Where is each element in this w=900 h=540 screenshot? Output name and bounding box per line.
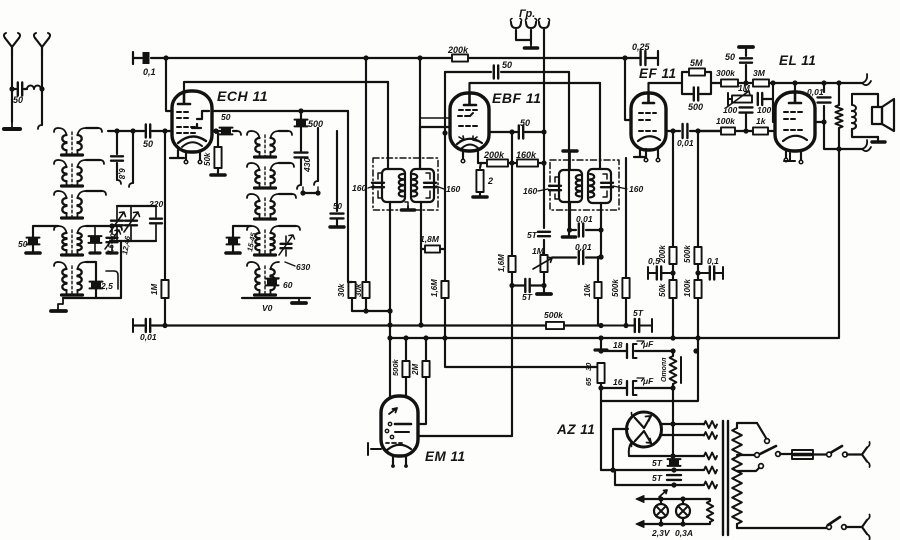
wire ECH11 plate line xyxy=(212,110,348,112)
coil stack1 unit 4 xyxy=(62,233,66,250)
svg-text:5T: 5T xyxy=(522,292,533,302)
svg-text:0,5: 0,5 xyxy=(648,256,660,266)
rail under 30k xyxy=(352,310,390,312)
trimmer 12,46 xyxy=(130,206,132,241)
svg-text:100: 100 xyxy=(723,105,737,115)
resistor 5M xyxy=(682,72,711,83)
terminal hook bottom xyxy=(862,140,871,151)
svg-text:30k: 30k xyxy=(354,283,363,297)
capacitor 0,01 bus1 left xyxy=(132,319,134,332)
wire top line to terminal xyxy=(795,82,862,84)
IF1 ground xyxy=(405,202,408,209)
svg-text:500: 500 xyxy=(688,102,703,112)
resistor 200k xyxy=(487,159,508,166)
svg-text:50: 50 xyxy=(221,112,231,122)
capacitor 50 to top ground xyxy=(745,65,747,83)
wire colA x672 xyxy=(672,131,674,247)
trimmer 4,5-30 xyxy=(116,206,118,241)
svg-text:1,6M: 1,6M xyxy=(430,279,439,297)
svg-text:300k: 300k xyxy=(716,68,736,78)
coil stack1 unit 5 xyxy=(62,269,66,290)
gramophone sockets xyxy=(511,22,521,28)
resistor 3M xyxy=(753,79,769,86)
terminal hook top xyxy=(862,74,871,85)
lamp winding vertical xyxy=(706,498,708,500)
choke field coil xyxy=(670,356,677,384)
svg-text:50k: 50k xyxy=(658,283,667,297)
EBF11 diode plates xyxy=(459,136,464,141)
wire bus1 xyxy=(165,324,601,326)
wire 0,1 node down to ECH11 grid1 xyxy=(166,58,172,111)
svg-text:0,1: 0,1 xyxy=(143,67,156,77)
wire EF11 top cap left/up xyxy=(649,83,683,93)
output transformer secondary xyxy=(852,94,856,129)
EBF11 top cap xyxy=(464,93,476,105)
wire x673 down to AZ11 xyxy=(672,388,674,456)
svg-text:1M: 1M xyxy=(150,284,159,295)
capacitor 0,5 xyxy=(648,267,673,279)
arrow lamp wire a xyxy=(636,496,644,503)
wire heater row y367 xyxy=(445,338,597,367)
svg-text:50: 50 xyxy=(502,60,512,70)
ECH11 pins xyxy=(170,150,184,158)
capacitor 50 antenna series xyxy=(9,86,14,91)
resistor 30k b xyxy=(362,282,369,298)
svg-text:3M: 3M xyxy=(753,68,766,78)
coil stack1 unit 3 xyxy=(62,198,66,213)
EM11 cathode arc xyxy=(387,445,411,450)
stack2 bottom rail xyxy=(242,297,310,299)
antenna A2 xyxy=(35,38,49,55)
svg-text:500k: 500k xyxy=(544,310,564,320)
EL11 cathode arc xyxy=(783,136,807,141)
switch lever primary xyxy=(760,446,776,454)
wire IF1 right bottom xyxy=(420,202,422,325)
EBF11 grids xyxy=(458,110,477,116)
coil L-ant 2 loops xyxy=(27,86,41,90)
ground under A1 xyxy=(11,122,13,128)
tube EF11 xyxy=(631,93,666,150)
svg-text:220: 220 xyxy=(148,199,163,209)
svg-text:2,5: 2,5 xyxy=(100,281,113,291)
capacitor 0,01 row2 xyxy=(579,251,583,264)
resistor 2M EM xyxy=(425,338,427,361)
stack1 bottom rail xyxy=(63,297,121,299)
IF1 label 160 right xyxy=(436,186,444,189)
tube EL11 xyxy=(775,92,815,151)
resistor 10k xyxy=(594,282,601,298)
svg-text:0,3A: 0,3A xyxy=(675,528,693,538)
primary tap 2 xyxy=(737,468,759,471)
svg-text:65: 65 xyxy=(584,377,593,386)
resistor 1k xyxy=(753,127,768,134)
svg-text:50: 50 xyxy=(520,118,530,128)
resistor 1,8M xyxy=(421,248,445,250)
ECH11 internal grids xyxy=(177,112,188,118)
IF2 dashed box xyxy=(550,160,619,210)
node bus1 start xyxy=(163,55,168,60)
wire x598 column xyxy=(597,257,599,265)
IF2 left winding xyxy=(559,170,582,202)
ground pot xyxy=(543,286,545,294)
capacitor 50 series grid xyxy=(146,125,150,138)
trimmer on unit4 xyxy=(111,226,113,252)
svg-text:100k: 100k xyxy=(716,116,736,126)
capacitor fixed on unit4 xyxy=(94,226,96,252)
IF2 left top ground xyxy=(569,152,571,170)
resistor 200k top bus xyxy=(452,54,468,61)
resistor 300k xyxy=(721,79,738,86)
wire pot wiper row xyxy=(552,256,601,258)
ECH11 grid exit + cap 50 xyxy=(213,128,218,133)
primary tap 1 xyxy=(737,454,754,456)
EL11 pins xyxy=(785,149,787,158)
svg-text:0,1: 0,1 xyxy=(707,256,719,266)
wire x512 column xyxy=(511,132,513,256)
capacitor 5T heater b xyxy=(667,475,681,480)
coil stack2 unit 3 xyxy=(255,201,259,214)
wire bottom line to terminal xyxy=(824,122,862,149)
IF2 left cap 160 xyxy=(549,186,561,190)
ground stack2 xyxy=(298,298,300,302)
wire antenna A1 down xyxy=(11,55,13,122)
resistor 100k colB xyxy=(694,280,701,298)
capacitor 6,8 column xyxy=(116,131,118,180)
IF1 left cap 160 xyxy=(372,183,384,187)
EF11 grids xyxy=(639,113,656,120)
wire bus drop x366 xyxy=(365,58,367,282)
resistor 100k xyxy=(721,127,735,134)
svg-text:50: 50 xyxy=(143,139,153,149)
svg-text:6,8: 6,8 xyxy=(117,168,126,180)
svg-text:EL 11: EL 11 xyxy=(779,53,816,68)
coil stack1 unit 1 xyxy=(62,135,66,150)
ECH11 top cap electrode xyxy=(178,91,190,104)
wire bus to EF11 grid xyxy=(625,58,631,120)
coil stack2 unit 5 xyxy=(255,269,259,290)
coil stack1 unit 2 xyxy=(62,167,66,181)
svg-text:1M: 1M xyxy=(738,83,751,93)
IF1 right cap 160 xyxy=(424,183,436,187)
wire grid line xyxy=(108,130,174,132)
EBF11 cathode arc xyxy=(457,139,482,144)
svg-text:200k: 200k xyxy=(447,45,469,55)
svg-text:30: 30 xyxy=(584,362,593,371)
ground speaker xyxy=(877,137,879,141)
IF1 label 160 left xyxy=(368,186,374,188)
svg-text:Отопл: Отопл xyxy=(661,357,668,382)
capacitor 220 xyxy=(155,206,157,241)
capacitor 500 xyxy=(296,120,306,126)
wire diode line xyxy=(489,131,544,133)
capacitor 0,01 EL xyxy=(823,83,825,122)
wire IF1 left bottom down xyxy=(389,202,391,396)
ECH11 triode electrode xyxy=(192,111,209,128)
svg-text:2: 2 xyxy=(487,176,493,186)
resistor 500k colB xyxy=(694,247,701,264)
wire x512 down to EM11 xyxy=(511,286,513,437)
wire B+ down right side xyxy=(838,149,840,338)
coil stack2 unit 4 xyxy=(255,233,259,250)
svg-text:160: 160 xyxy=(523,186,537,196)
capacitor 430 xyxy=(295,153,308,158)
fuse xyxy=(780,453,792,455)
wire osc grid column x165 xyxy=(164,131,166,280)
capacitor 5T xyxy=(512,284,544,286)
wire column x133 xyxy=(132,131,134,183)
capacitor 50 screen series xyxy=(494,66,498,79)
capacitor 0,01 EF plate xyxy=(666,130,721,132)
resistor 50k colA xyxy=(669,280,676,298)
potentiometer 1M tone xyxy=(728,93,732,105)
resistor 500k b xyxy=(622,278,629,298)
capacitor 0,1 colB xyxy=(698,267,723,279)
svg-text:50k: 50k xyxy=(203,152,212,166)
svg-text:5T: 5T xyxy=(652,458,663,468)
capacitor 100 electrolytic xyxy=(745,82,747,84)
svg-text:AZ 11: AZ 11 xyxy=(556,422,595,437)
IF2 right cap 160 xyxy=(601,183,613,187)
svg-text:EM 11: EM 11 xyxy=(425,449,466,464)
coil stack2 unit 2 xyxy=(255,170,259,183)
wire unit5 area xyxy=(86,262,96,281)
wire EL grid row xyxy=(696,130,775,132)
svg-text:0,01: 0,01 xyxy=(677,138,694,148)
wire EBF11 top cap to plate line xyxy=(470,83,601,93)
svg-text:10k: 10k xyxy=(583,283,592,297)
wire colB x698 xyxy=(697,131,699,247)
svg-text:100k: 100k xyxy=(683,279,692,297)
capacitor 500 parallel xyxy=(682,83,711,94)
svg-text:5T: 5T xyxy=(527,230,538,240)
wire cathode row xyxy=(478,162,544,164)
label 630 xyxy=(285,262,295,266)
wire EM11 target line xyxy=(418,435,512,437)
wire screen line y72 xyxy=(445,71,569,73)
AZ11 cathode down xyxy=(629,443,631,456)
resistor 1,6M a xyxy=(441,281,448,298)
resistor 500k EM xyxy=(405,338,407,361)
switch mains b xyxy=(827,525,832,530)
IF1 left winding xyxy=(382,169,405,202)
resistor 30k a xyxy=(348,282,355,298)
resistor 2 cathode xyxy=(478,163,481,168)
capacitor 0,1 xyxy=(132,52,134,64)
output transformer primary xyxy=(835,105,842,128)
EF11 cathode arc xyxy=(638,136,660,141)
svg-text:630: 630 xyxy=(296,262,310,272)
AZ11 plate wires xyxy=(660,423,704,425)
svg-text:30k: 30k xyxy=(337,283,346,297)
capacitor 2,5 xyxy=(91,282,101,288)
svg-text:100: 100 xyxy=(757,105,771,115)
EM11 pins xyxy=(392,456,394,464)
tube AZ11 xyxy=(627,412,662,447)
capacitor 16uF xyxy=(601,381,627,395)
svg-text:EBF 11: EBF 11 xyxy=(492,90,541,106)
svg-text:50: 50 xyxy=(18,239,28,249)
potentiometer 1M volume xyxy=(540,255,547,272)
svg-text:1k: 1k xyxy=(756,116,767,126)
switch lever lamps xyxy=(659,490,667,497)
capacitor 50 stack1 unit4 left xyxy=(33,226,58,237)
lamp wires xyxy=(641,498,706,500)
tube EM11 xyxy=(381,396,418,456)
svg-text:5T: 5T xyxy=(652,473,663,483)
wire filter loop xyxy=(601,338,698,401)
speaker xyxy=(872,107,882,124)
resistor 30/65 xyxy=(597,363,604,383)
svg-text:200k: 200k xyxy=(483,150,505,160)
lamp 1 xyxy=(654,504,668,518)
svg-text:160: 160 xyxy=(629,184,643,194)
svg-text:160: 160 xyxy=(446,184,460,194)
resistor 200k colA xyxy=(669,247,676,264)
resistor 500k bus1 xyxy=(546,322,564,329)
wire gramophone column x544 xyxy=(543,30,545,255)
svg-text:50: 50 xyxy=(13,95,23,105)
socket wiring xyxy=(516,30,531,44)
svg-text:ECH 11: ECH 11 xyxy=(217,88,268,104)
svg-text:500k: 500k xyxy=(683,245,692,263)
IF2 label 160 left xyxy=(538,189,548,191)
IF1 right winding xyxy=(411,169,434,202)
ground top of 65 resistor xyxy=(595,348,607,351)
arrow lamp wire b xyxy=(636,521,644,528)
svg-text:V0: V0 xyxy=(262,303,273,313)
wire ECH top line down to IF1 xyxy=(387,82,389,169)
wire pot bottom xyxy=(543,272,545,286)
plug pin b xyxy=(856,520,867,534)
trimmer cluster rails xyxy=(110,206,156,298)
AZ11 left wire xyxy=(613,429,628,470)
svg-text:1,6M: 1,6M xyxy=(497,254,506,272)
wire EL11 plate to x824 xyxy=(815,121,824,123)
heater wires xyxy=(601,469,704,471)
svg-text:500k: 500k xyxy=(611,279,620,297)
transformer primary xyxy=(732,428,742,524)
wire EBF plate down to IF2 xyxy=(599,83,601,169)
IF2 bottoms xyxy=(569,202,571,230)
wire x445 column xyxy=(444,72,446,281)
capacitor 60 xyxy=(275,277,279,279)
svg-text:1,8M: 1,8M xyxy=(420,234,440,244)
svg-text:50: 50 xyxy=(333,202,342,211)
svg-text:18: 18 xyxy=(613,340,623,350)
svg-text:2M: 2M xyxy=(411,364,420,376)
svg-text:0,01: 0,01 xyxy=(807,87,824,97)
switch mains a xyxy=(827,452,832,457)
svg-text:16: 16 xyxy=(613,377,623,387)
EBF11 pins xyxy=(462,150,464,159)
capacitor 5T bus1 end xyxy=(601,319,652,332)
AZ11 filaments xyxy=(635,416,651,428)
primary top tap xyxy=(757,423,766,438)
svg-text:2,3V: 2,3V xyxy=(651,528,671,538)
svg-text:5T: 5T xyxy=(633,308,644,318)
capacitor 5T heater a xyxy=(669,459,679,465)
capacitor pot to x773 xyxy=(758,93,762,105)
antenna A1 xyxy=(5,38,19,55)
plug pin a xyxy=(856,448,867,462)
wire IF1 right top to EBF11 xyxy=(420,127,452,169)
wire bus2 drop x601 xyxy=(600,338,602,351)
EF11 top cap xyxy=(643,93,654,103)
tube EBF11 xyxy=(450,93,489,151)
wire top bus xyxy=(166,57,640,59)
wire plate line corner down x348 xyxy=(347,111,349,282)
lamp 2 xyxy=(676,504,690,518)
resistor 160k xyxy=(517,159,538,166)
wire bus2 xyxy=(390,337,838,339)
tube ECH11 xyxy=(172,91,212,152)
svg-text:500k: 500k xyxy=(391,358,400,376)
resistor 50k cathode xyxy=(216,131,218,147)
resistor 1,6M b xyxy=(508,256,515,272)
IF1 dashed box xyxy=(373,158,438,210)
wire ECH11 top to right xyxy=(184,82,388,91)
capacitor stack2 unit4 left xyxy=(233,226,251,237)
svg-text:160k: 160k xyxy=(516,150,537,160)
svg-text:500: 500 xyxy=(308,119,323,129)
ECH11 cathode arc xyxy=(178,136,206,143)
stack2 unit4 leads xyxy=(279,225,296,227)
IF2 label 160 right xyxy=(613,186,627,189)
coil stack1 unit4 top lead xyxy=(86,225,112,227)
ground stack1 xyxy=(58,298,63,311)
svg-text:1M: 1M xyxy=(532,246,545,256)
ground under IF2 xyxy=(568,230,570,235)
svg-text:0,01: 0,01 xyxy=(140,332,157,342)
svg-text:0,25: 0,25 xyxy=(632,42,651,52)
capacitor 0,01 row1 xyxy=(569,229,601,231)
svg-text:EF 11: EF 11 xyxy=(639,66,677,81)
coil stack2 unit 1 xyxy=(255,138,259,152)
wire plate line down xyxy=(300,111,302,119)
svg-text:0,01: 0,01 xyxy=(576,214,593,224)
svg-text:60: 60 xyxy=(283,280,293,290)
capacitor 50 screen xyxy=(336,131,338,211)
wire antenna A2 down xyxy=(41,55,43,125)
EL11 grids xyxy=(784,112,802,119)
EL11 top cap xyxy=(794,83,796,92)
wire screen x569 down xyxy=(568,72,570,230)
EM11 left terminal xyxy=(368,443,381,455)
EF11 pins xyxy=(634,148,646,157)
svg-text:430: 430 xyxy=(302,158,312,173)
wire x626 column xyxy=(625,158,627,278)
stack2 trimmer cluster xyxy=(285,236,287,256)
svg-text:50: 50 xyxy=(725,52,735,62)
wire mains bottom xyxy=(737,527,826,529)
capacitor 0,25 xyxy=(641,51,646,65)
svg-text:0,01: 0,01 xyxy=(575,242,592,252)
capacitor 18uF xyxy=(601,344,627,358)
capacitor 5T series pot xyxy=(538,232,550,236)
svg-text:5M: 5M xyxy=(690,58,703,68)
capacitor 50 diode xyxy=(519,126,523,139)
IF2 right winding xyxy=(588,169,611,203)
svg-text:160: 160 xyxy=(352,183,366,193)
wire column x318 xyxy=(317,128,319,181)
transformer core xyxy=(722,421,724,535)
EM11 internals xyxy=(389,408,397,414)
wire combo to 300k xyxy=(711,82,721,84)
wire x601 to heater xyxy=(600,401,602,470)
